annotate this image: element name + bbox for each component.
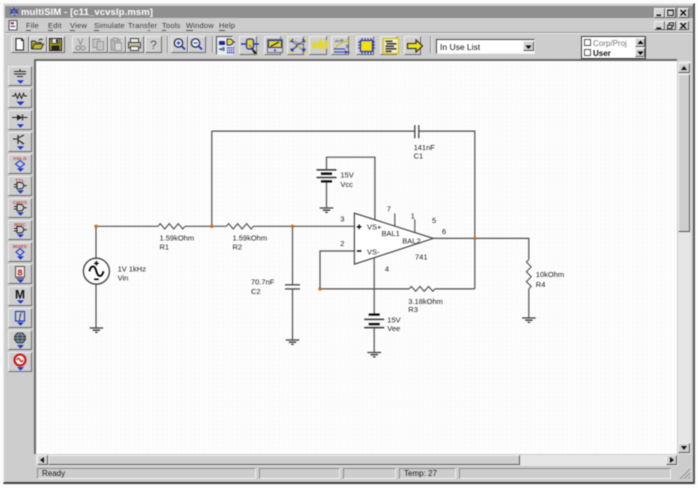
label R1 xyxy=(160,234,195,252)
label VS+ xyxy=(367,223,382,232)
svg-text:R3: R3 xyxy=(408,305,418,314)
wire node E up to pin 2 xyxy=(320,251,354,289)
resistor R3 xyxy=(409,287,435,292)
svg-text:1: 1 xyxy=(411,212,415,221)
svg-text:B: B xyxy=(346,44,349,49)
wire bottom feedback node E to R3 xyxy=(320,288,409,290)
component toolbar btn (pressed) xyxy=(216,36,234,56)
indicators xyxy=(8,264,32,284)
waveform xyxy=(309,36,327,56)
svg-text:f: f xyxy=(19,311,23,321)
label Vcc xyxy=(340,171,353,189)
print xyxy=(126,36,144,53)
pin 1 number xyxy=(411,212,415,221)
pin 5 number xyxy=(432,216,436,225)
wire R3 to node D xyxy=(435,288,475,290)
label C1 xyxy=(414,143,436,161)
resistor R1 xyxy=(158,224,185,229)
svg-text:C2: C2 xyxy=(251,287,261,296)
wire R2 to node C xyxy=(253,225,354,227)
wire top horizontal to C1 xyxy=(212,130,415,132)
svg-text:3: 3 xyxy=(340,214,344,223)
svg-text:R2: R2 xyxy=(233,242,243,251)
paste (disabled) xyxy=(108,36,126,53)
pin 7 stub xyxy=(394,214,396,227)
pin 4 number xyxy=(385,265,389,274)
transistors xyxy=(8,132,32,152)
svg-text:M: M xyxy=(15,287,25,301)
label R2 xyxy=(233,234,268,252)
canvas xyxy=(34,59,677,454)
junction node E (feedback corner) xyxy=(318,287,321,290)
ground below Vin xyxy=(90,328,104,332)
battery Vee xyxy=(364,315,384,328)
zoom out xyxy=(188,36,206,53)
svg-text:6: 6 xyxy=(442,227,446,236)
svg-text:1V 1kHz: 1V 1kHz xyxy=(118,265,147,274)
CMOS xyxy=(8,198,32,218)
svg-text:7: 7 xyxy=(387,205,391,214)
label Vin value xyxy=(118,265,147,283)
ground below C2 xyxy=(286,340,300,344)
wire op-amp pin 4 down to Vee battery xyxy=(373,258,375,314)
AC source Vin xyxy=(83,258,109,284)
label BAL2 xyxy=(402,237,420,246)
save xyxy=(47,36,65,53)
basic xyxy=(8,88,32,108)
arrow xyxy=(404,36,422,56)
sources xyxy=(8,66,32,86)
svg-text:VS+: VS+ xyxy=(367,223,382,232)
cut (disabled) xyxy=(72,36,90,53)
svg-text:4: 4 xyxy=(385,265,389,274)
v scrollbar xyxy=(678,61,691,454)
chip xyxy=(356,36,374,56)
transfer xyxy=(331,36,349,56)
menu bar xyxy=(5,19,693,32)
label R3 xyxy=(408,297,443,314)
wire Vcc battery top loop to op-amp pin 7 xyxy=(327,157,375,221)
pin 7 number xyxy=(387,205,391,214)
mixed xyxy=(8,242,32,262)
wire C1 to right corner and down to node D xyxy=(419,131,475,289)
wire feedback left vertical node B up xyxy=(211,131,213,226)
ground below R4 xyxy=(522,318,536,322)
svg-text:Vee: Vee xyxy=(387,324,400,333)
svg-text:R1: R1 xyxy=(160,242,170,251)
capacitor C2 xyxy=(285,285,300,289)
listbox Corp/Proj User xyxy=(581,36,646,59)
wire Vee battery bottom to ground xyxy=(373,328,375,353)
capacitor C1 xyxy=(415,125,419,138)
junction node B (R1 / R2 / C1 branch) xyxy=(210,225,213,228)
left toolbar column bg xyxy=(5,57,35,478)
svg-text:BAL2: BAL2 xyxy=(402,237,420,246)
open xyxy=(29,36,47,53)
wire node C down to C2 xyxy=(292,226,294,284)
pin 1 stub xyxy=(414,219,416,232)
wire op-amp output to R4 corner xyxy=(433,238,529,259)
misc M xyxy=(8,286,32,306)
wire R1 to node B xyxy=(185,225,226,227)
label C2 xyxy=(251,278,275,296)
wire R4 bottom to ground xyxy=(528,289,530,318)
ground below Vcc xyxy=(320,208,334,212)
left toolbar buttons xyxy=(0,0,698,1)
new xyxy=(11,36,29,53)
svg-text:70.7nF: 70.7nF xyxy=(251,278,275,287)
battery Vcc xyxy=(317,170,337,182)
wire Vin top lead xyxy=(95,226,97,258)
label Vee xyxy=(387,316,400,334)
status bar xyxy=(5,466,693,480)
svg-text:10kOhm: 10kOhm xyxy=(536,270,564,279)
controls xyxy=(8,308,32,328)
ground below Vee xyxy=(367,353,381,357)
toolbar groove xyxy=(5,32,693,33)
toolbar buttons xyxy=(0,0,698,1)
svg-text:?: ? xyxy=(150,38,157,52)
h scrollbar xyxy=(36,455,678,466)
svg-text:Vcc: Vcc xyxy=(340,180,353,189)
main window buttons xyxy=(654,8,665,18)
svg-text:141nF: 141nF xyxy=(414,143,436,152)
op-amp plus input marker xyxy=(357,225,362,230)
label VS- xyxy=(367,248,380,257)
svg-text:R4: R4 xyxy=(536,280,546,289)
help xyxy=(145,36,163,53)
label 741 xyxy=(415,253,428,262)
diodes xyxy=(8,110,32,130)
wire Vin bottom lead to ground xyxy=(95,284,97,328)
junction node D (output) xyxy=(473,237,476,240)
analog xyxy=(8,154,32,174)
op-amp U1 741 triangle xyxy=(354,213,433,264)
electromech xyxy=(8,352,32,372)
pin 6 number xyxy=(442,227,446,236)
wire C2 bottom to ground xyxy=(292,289,294,340)
svg-text:BAL1: BAL1 xyxy=(382,229,400,238)
junction node C (R2 / C2 / pin 3) xyxy=(291,225,294,228)
probe/edit xyxy=(239,36,257,56)
svg-text:8: 8 xyxy=(17,268,22,278)
svg-text:2: 2 xyxy=(340,239,344,248)
copy (disabled) xyxy=(90,36,108,53)
pin 2 number xyxy=(340,239,344,248)
label R4 xyxy=(536,270,564,289)
op-amp minus input marker xyxy=(357,250,362,252)
resistor R2 xyxy=(226,224,253,229)
zoom in xyxy=(171,36,189,53)
svg-text:C1: C1 xyxy=(414,152,424,161)
MISC digital xyxy=(8,220,32,240)
junction node A (Vin / R1) xyxy=(94,225,97,228)
title bar xyxy=(5,6,693,18)
label BAL1 xyxy=(382,229,400,238)
svg-text:Vin: Vin xyxy=(118,274,129,283)
combo: In Use List xyxy=(436,39,535,54)
wire main horizontal: node A to R1 xyxy=(96,225,158,227)
resistor R4 xyxy=(526,260,531,289)
pin 3 number xyxy=(340,214,344,223)
TTL xyxy=(8,176,32,196)
svg-text:15V: 15V xyxy=(340,171,353,180)
svg-text:741: 741 xyxy=(415,253,428,262)
meter xyxy=(264,36,282,56)
svg-text:5: 5 xyxy=(432,216,436,225)
netlist xyxy=(287,36,305,56)
svg-text:VS-: VS- xyxy=(367,248,380,257)
RF globe xyxy=(8,330,32,350)
MDI child buttons xyxy=(654,21,665,31)
wire Vcc battery bottom to ground xyxy=(326,182,328,208)
report xyxy=(380,36,398,56)
svg-text:A: A xyxy=(347,49,350,54)
